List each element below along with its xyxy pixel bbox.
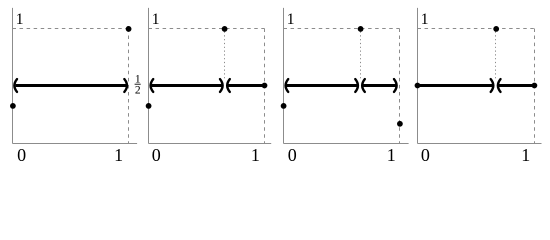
close paren at (1,1/2) [394,79,397,92]
svg-text:1: 1 [251,145,260,165]
y-axis panel 2 [148,8,150,144]
closed dot at (1,1/2) [262,83,268,89]
dotted line from (a,1) to gap [224,32,226,81]
open paren right of a [227,79,230,92]
dashed line x=1 panel 4 [534,29,536,144]
dot at (0,1/3) panel 1 [10,103,16,109]
dotted line from (a,1) to gap [495,32,497,81]
panel 3 graph [281,26,403,127]
dashed line y=1 panel 2 [149,28,265,30]
open paren at (0,1/2) [286,79,289,92]
y-axis panel 1 [12,8,14,144]
dotted line from (a,1) to gap [360,32,362,81]
right segment [499,84,535,87]
x-axis panel 3 [284,143,409,145]
y-axis panel 4 [417,8,419,144]
x-axis panel 2 [149,143,272,145]
x-axis panel 4 [418,143,542,145]
panel 4 graph [415,26,538,92]
closed dot at (0,1/2) [415,83,421,89]
open paren right of a [498,79,501,92]
panel 4 axes [418,8,542,165]
close paren left of a [220,79,223,92]
dashed line x=1 panel 3 [399,29,401,144]
close paren at (1,1/2) panel 1 [124,79,127,92]
dashed line x=1 panel 2 [264,29,266,144]
svg-text:0: 0 [288,145,297,165]
svg-text:1: 1 [521,145,530,165]
dot at (0,1/3) panel 3 [281,103,287,109]
dashed line y=1 panel 1 [13,28,129,30]
left segment [152,84,222,87]
dot at (a,1) [358,26,364,32]
open paren right of a [362,79,365,92]
svg-text:1: 1 [135,73,141,85]
dashed line y=1 panel 4 [418,28,535,30]
svg-text:0: 0 [421,145,430,165]
open paren at (0,1/2) panel 1 [14,79,17,92]
panel 1 graph [10,26,132,109]
left segment [418,84,493,87]
open paren at (0,1/2) [151,79,154,92]
dot at (a,1) [222,26,228,32]
svg-text:1: 1 [114,145,123,165]
segment y=1/2 panel 1 [16,84,127,87]
right segment [228,84,264,87]
panel 2 axes [149,8,272,165]
y-axis panel 3 [283,8,285,144]
svg-text:1: 1 [387,145,396,165]
dot at (1,1) panel 1 [126,26,132,32]
close paren left of a [355,79,358,92]
dot at (1,1/6) panel 3 [397,121,403,127]
left segment [287,84,358,87]
svg-text:1: 1 [287,11,295,28]
svg-text:0: 0 [17,145,26,165]
right segment [363,84,396,87]
dot at (a,1) [493,26,499,32]
svg-text:1: 1 [421,11,429,28]
panel 3 axes [284,8,409,165]
close paren left of a [491,79,494,92]
panel 1 axes [13,8,138,165]
x-axis panel 1 [13,143,138,145]
label 1/2 right of panel 1 [135,73,141,96]
closed dot at (1,1/2) [532,83,538,89]
svg-text:0: 0 [152,145,161,165]
svg-text:1: 1 [152,11,160,28]
dashed line y=1 panel 3 [284,28,400,30]
svg-text:2: 2 [135,85,141,97]
svg-text:1: 1 [16,11,24,28]
panel 2 graph [146,26,268,109]
dot at (0,1/3) panel 2 [146,103,152,109]
dashed line x=1 panel 1 [128,29,130,144]
